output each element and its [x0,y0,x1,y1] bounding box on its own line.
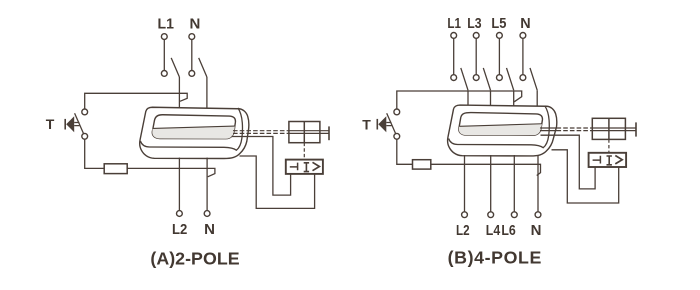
terminal N bottom (A) [204,211,210,217]
wire N terminal to contact (B) [522,38,524,74]
secondary winding wire lower (A) [240,156,315,208]
wire resistor to N pole with hook (A) [127,168,215,176]
svg-text:L5: L5 [491,15,506,32]
terminal L5 top (B) [497,33,503,39]
svg-text:(A)2-POLE: (A)2-POLE [150,249,239,269]
test contact upper (A) [82,109,88,115]
terminal L2 bottom (B) [462,212,468,218]
test contact lower (B) [394,133,400,139]
secondary winding wire upper (A) [232,137,291,196]
relay divider (A) [303,122,305,143]
detector box I> (B) [589,153,627,167]
relay coil box (A) [289,122,320,143]
svg-text:(B)4-POLE: (B)4-POLE [448,248,542,268]
svg-text:L4: L4 [486,222,501,239]
terminal L1 top (B) [451,33,457,39]
wire test bottom to resistor (A) [85,139,105,168]
toroid hole inner floor (A) [152,126,234,139]
svg-text:N: N [531,222,542,239]
toroid core bottom rim line (B) [449,106,550,148]
test button linkage (B) [386,123,391,126]
secondary winding wire lower (B) [552,150,619,203]
contact L1 (A) [161,71,167,77]
wire L5 pole to toroid (B) [513,90,515,106]
wire L1 pole to toroid (A) [178,77,180,108]
detector symbol I (B) [607,156,612,165]
detector symbol &gt; (B) [615,156,622,164]
svg-text:L2: L2 [172,221,187,238]
toroid core hole (B) [459,113,543,136]
wire L2 pole below toroid (B) [464,155,466,212]
test button linkage (A) [74,123,79,126]
test button actuator bar (B) [376,119,378,130]
toroid core outer (B) [448,105,557,156]
toroid hole floor edge (A) [153,126,235,128]
svg-text:T: T [362,117,371,133]
wire L2 pole below toroid (A) [178,158,180,211]
wire L5 terminal to contact (B) [498,38,500,74]
dashed link relay to detector (B) [608,139,610,152]
wire test top to L5 pole with hook (B) [397,91,522,109]
detector symbol &gt; (A) [313,162,320,170]
secondary winding wire upper (B) [541,135,596,189]
resistor R test (B) [413,160,431,169]
coupling lead lines (B) [540,128,557,131]
svg-text:L2: L2 [456,222,470,239]
svg-text:L3: L3 [467,15,481,32]
switch blade L1 (B) [461,68,468,90]
toroid hole floor edge (B) [459,124,542,127]
wire L3 terminal to contact (B) [475,38,477,74]
toroid core hole (A) [152,115,235,139]
switch blade L5 (B) [507,68,514,90]
wire L1 terminal to contact (B) [453,38,455,74]
terminal L1 top (A) [161,34,167,40]
terminal L6 bottom (B) [511,212,517,218]
wire N pole below toroid (B) [537,155,539,212]
test contact upper (B) [394,109,400,115]
toroid core bottom rim line (A) [140,108,242,150]
wire N terminal to contact (A) [191,40,193,71]
contact L3 (B) [473,75,479,81]
contact N (A) [189,71,195,77]
coupling dashed lines (B) [557,128,593,131]
svg-text:N: N [204,221,215,238]
wire L3 pole to toroid (B) [490,90,492,106]
test switch blade (B) [387,113,396,134]
toroid core outer (A) [140,107,249,158]
wire L4 pole below toroid (B) [490,155,492,212]
relay divider (B) [608,118,610,139]
detector symbol dash-bar (A) [290,163,298,171]
test switch blade (A) [75,113,84,134]
relay through lines to plunger (B) [592,128,636,131]
relay through lines to plunger (A) [289,131,329,134]
switch blade L1 (A) [171,58,179,77]
wire test bottom to resistor (B) [397,139,413,164]
resistor R test (A) [104,164,127,174]
wire N pole to toroid (A) [206,77,208,108]
relay coil box (B) [592,118,625,139]
svg-text:N: N [520,15,530,32]
coupling dashed lines (A) [233,131,289,134]
wire resistor to N pole with hook (B) [431,164,541,175]
wire L1 pole to toroid (B) [467,90,469,106]
relay plunger bar (B) [635,122,637,136]
svg-text:N: N [189,16,200,33]
dashed link relay to detector (A) [303,143,305,160]
contact L5 (B) [497,75,503,81]
detector symbol dash-bar (B) [593,156,601,164]
contact N (B) [520,75,526,81]
wire test top to L1 pole with hook (A) [85,93,188,109]
wire L6 pole below toroid (B) [513,155,515,212]
test contact lower (A) [82,133,88,139]
detector box I> (A) [286,160,323,174]
switch blade L3 (B) [483,68,490,90]
svg-text:L1: L1 [447,15,461,32]
switch blade N (B) [530,68,537,90]
contact L1 (B) [451,75,457,81]
terminal N top (B) [520,33,526,39]
terminal N top (A) [189,34,195,40]
svg-text:L1: L1 [158,16,174,33]
svg-text:T: T [46,116,55,132]
detector symbol I (A) [304,163,309,172]
switch blade N (A) [199,58,207,77]
terminal N bottom (B) [535,212,541,218]
test button actuator bar (A) [64,119,66,130]
test button plunger triangle (A) [66,116,74,132]
wire L1 terminal to contact (A) [163,40,165,71]
relay plunger bar (A) [328,126,330,140]
terminal L2 bottom (A) [177,211,183,217]
wire N pole below toroid (A) [206,158,208,211]
test button plunger triangle (B) [378,116,386,132]
svg-text:L6: L6 [501,222,515,239]
terminal L3 top (B) [473,33,479,39]
wire N pole to toroid (B) [536,90,538,106]
terminal L4 bottom (B) [488,212,494,218]
toroid hole inner floor (B) [459,124,542,136]
